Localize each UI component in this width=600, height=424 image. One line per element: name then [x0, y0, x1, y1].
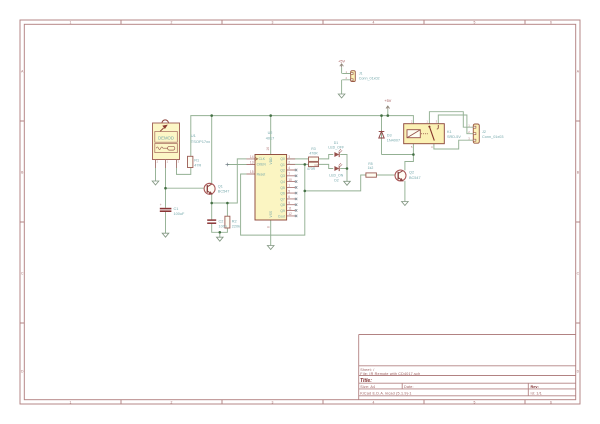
svg-text:Rev:: Rev:	[531, 385, 539, 389]
svg-text:15: 15	[250, 170, 254, 174]
svg-text:1N4007: 1N4007	[387, 138, 400, 142]
svg-text:D1: D1	[334, 141, 339, 145]
svg-text:R3: R3	[311, 147, 316, 151]
svg-text:13: 13	[250, 160, 254, 164]
svg-text:K1: K1	[447, 130, 452, 134]
svg-text:Q2: Q2	[409, 171, 414, 175]
svg-text:+5V: +5V	[338, 60, 345, 64]
svg-text:6: 6	[550, 400, 552, 404]
svg-text:11: 11	[288, 207, 292, 211]
svg-text:Title:: Title:	[360, 378, 372, 384]
svg-text:DEMOD: DEMOD	[158, 135, 174, 140]
svg-text:3: 3	[288, 155, 290, 159]
svg-text:14: 14	[250, 155, 254, 159]
svg-text:D3: D3	[387, 133, 392, 137]
svg-text:CKEN: CKEN	[257, 163, 267, 167]
svg-text:D2: D2	[334, 179, 339, 183]
svg-text:470R: 470R	[307, 167, 316, 171]
svg-text:1k2: 1k2	[368, 166, 374, 170]
svg-text:LED_OFF: LED_OFF	[328, 146, 344, 150]
svg-text:3: 3	[272, 400, 274, 404]
svg-text:1: 1	[288, 184, 290, 188]
svg-text:VSS: VSS	[269, 210, 273, 217]
svg-text:6: 6	[550, 21, 552, 25]
svg-text:R2: R2	[232, 220, 237, 224]
svg-text:Q3: Q3	[280, 174, 285, 178]
svg-text:Q8: Q8	[280, 203, 285, 207]
svg-text:12: 12	[288, 212, 292, 216]
svg-text:+: +	[160, 203, 162, 207]
svg-text:Q4: Q4	[280, 180, 285, 184]
svg-text:Id: 1/1: Id: 1/1	[531, 392, 543, 396]
svg-text:220k: 220k	[232, 224, 240, 228]
svg-text:VDD: VDD	[269, 157, 273, 165]
svg-text:Q0: Q0	[280, 157, 285, 161]
svg-text:Cout: Cout	[278, 214, 285, 218]
svg-text:16: 16	[266, 147, 270, 151]
svg-text:2: 2	[288, 161, 290, 165]
svg-text:4: 4	[373, 400, 375, 404]
svg-text:Reset: Reset	[257, 172, 266, 176]
svg-text:6: 6	[288, 195, 290, 199]
svg-text:5: 5	[474, 400, 476, 404]
svg-text:SRD-5V: SRD-5V	[447, 135, 461, 139]
svg-text:2: 2	[171, 400, 173, 404]
svg-text:Q9: Q9	[280, 209, 285, 213]
svg-text:BC547: BC547	[218, 190, 230, 194]
svg-text:1: 1	[70, 21, 72, 25]
svg-text:C1: C1	[174, 207, 179, 211]
svg-text:10: 10	[288, 178, 292, 182]
svg-text:4: 4	[288, 166, 290, 170]
svg-text:Size: A4: Size: A4	[360, 385, 375, 389]
svg-text:R1: R1	[194, 158, 199, 162]
svg-text:Conn_01x02: Conn_01x02	[359, 77, 380, 81]
svg-text:2: 2	[171, 21, 173, 25]
svg-text:Q5: Q5	[280, 186, 285, 190]
svg-text:5: 5	[474, 21, 476, 25]
svg-text:47R: 47R	[194, 163, 201, 167]
svg-text:100uF: 100uF	[174, 212, 185, 216]
svg-text:File: IR Remote with CD4017.sc: File: IR Remote with CD4017.sch	[360, 372, 420, 376]
svg-text:8: 8	[266, 226, 270, 228]
svg-text:Q7: Q7	[280, 197, 285, 201]
svg-text:J1: J1	[359, 72, 363, 76]
svg-text:Date:: Date:	[404, 385, 414, 389]
svg-text:4017: 4017	[266, 137, 274, 141]
svg-text:TSOP17xx: TSOP17xx	[191, 139, 210, 144]
svg-text:4: 4	[373, 21, 375, 25]
svg-text:CLK: CLK	[259, 157, 266, 161]
svg-text:LED_ON: LED_ON	[329, 174, 343, 178]
svg-text:U2: U2	[268, 131, 273, 135]
svg-text:Q1: Q1	[218, 185, 223, 189]
svg-text:BC547: BC547	[409, 176, 421, 180]
svg-text:KiCad E.D.A. kicad (5.1.9)-1: KiCad E.D.A. kicad (5.1.9)-1	[360, 392, 411, 396]
svg-text:C2: C2	[219, 220, 224, 224]
svg-text:1: 1	[70, 400, 72, 404]
svg-text:Q1: Q1	[280, 163, 285, 167]
svg-text:470R: 470R	[309, 151, 318, 155]
svg-text:7: 7	[288, 172, 290, 176]
svg-text:3: 3	[272, 21, 274, 25]
svg-text:Conn_01x03: Conn_01x03	[482, 135, 504, 139]
svg-text:5: 5	[288, 189, 290, 193]
svg-text:J2: J2	[482, 130, 486, 134]
svg-text:9: 9	[288, 201, 290, 205]
svg-text:Q6: Q6	[280, 192, 285, 196]
svg-text:Q2: Q2	[280, 168, 285, 172]
svg-text:100n: 100n	[219, 224, 227, 228]
svg-text:+5V: +5V	[384, 99, 391, 103]
svg-text:U1: U1	[191, 133, 197, 138]
